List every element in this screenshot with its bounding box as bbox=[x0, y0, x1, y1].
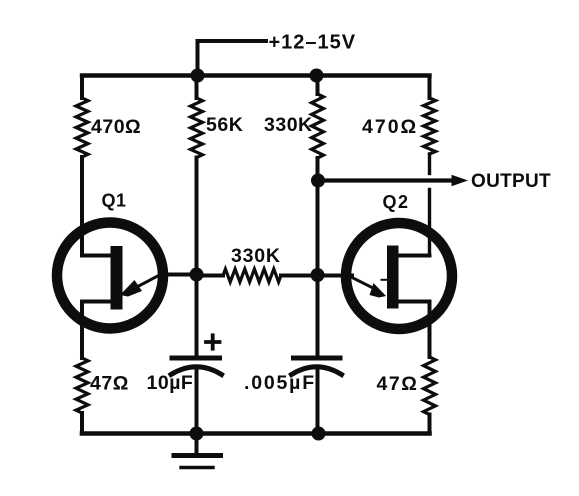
resistor 47 ohm right bbox=[424, 357, 436, 415]
resistor 330K vertical bbox=[312, 94, 324, 158]
scan dash near Q2 bar bbox=[382, 279, 387, 281]
resistor 56K bbox=[191, 98, 203, 158]
ground bar 1 bbox=[174, 453, 221, 458]
transistor Q2 base bar bbox=[387, 246, 399, 309]
wire left column upper (rail to 470 ohm) bbox=[80, 76, 84, 99]
wire 330K column to output node bbox=[316, 158, 320, 181]
capacitor 10uF plus sign bbox=[206, 340, 220, 344]
wire left column lower (Q1 emitter to 47 ohm) bbox=[80, 302, 84, 359]
capacitor 10uF top plate bbox=[172, 356, 220, 361]
wire 56K column lower (to middle node) bbox=[195, 158, 199, 276]
resistor 470 ohm left bbox=[76, 98, 88, 157]
ground stub bbox=[195, 434, 199, 456]
svg-text:OUTPUT: OUTPUT bbox=[471, 171, 551, 192]
capacitor 10uF curved plate bbox=[171, 367, 222, 375]
svg-text:47Ω: 47Ω bbox=[90, 373, 129, 395]
svg-text:330K: 330K bbox=[264, 114, 313, 136]
output arrowhead bbox=[452, 175, 469, 186]
wire right column upper (rail to 470 ohm) bbox=[428, 76, 432, 99]
wire 330K column upper bbox=[316, 76, 320, 95]
wire 10uF column upper bbox=[195, 276, 199, 358]
capacitor .005uF top plate bbox=[294, 356, 341, 361]
transistor Q2 collector lead bbox=[398, 254, 430, 258]
svg-text:Q2: Q2 bbox=[383, 192, 410, 212]
transistor Q1 circle bbox=[57, 223, 163, 329]
svg-text:330K: 330K bbox=[231, 245, 281, 267]
svg-text:10µF: 10µF bbox=[147, 372, 194, 394]
wire 330K column output node to base node bbox=[316, 181, 320, 276]
wire left column to bottom rail bbox=[80, 413, 84, 434]
wire right column lower (Q2 emitter to 47 ohm) bbox=[428, 302, 432, 358]
transistor Q1 right lead bbox=[160, 273, 197, 277]
junction dot middle left bbox=[190, 268, 204, 282]
ground bar 2 bbox=[181, 466, 213, 469]
wire 10uF column lower bbox=[195, 369, 199, 434]
transistor Q1 collector lead bbox=[82, 254, 111, 258]
wire bottom rail bbox=[82, 431, 430, 436]
svg-text:Q1: Q1 bbox=[102, 191, 127, 211]
transistor Q1 emitter arrow bbox=[134, 275, 161, 289]
svg-text:470Ω: 470Ω bbox=[91, 116, 141, 138]
wire middle row right (330K to node) bbox=[281, 274, 318, 278]
wire 56K column upper bbox=[195, 76, 199, 99]
transistor Q1 base bar bbox=[111, 246, 123, 310]
junction dot middle right bbox=[311, 268, 325, 282]
junction dot output bbox=[311, 174, 325, 188]
svg-text:.005µF: .005µF bbox=[244, 372, 316, 394]
wire power stub vertical bbox=[196, 41, 200, 76]
wire right column to output crossing bbox=[428, 154, 431, 174]
capacitor .005uF curved plate bbox=[292, 367, 342, 375]
svg-text:+12–15V: +12–15V bbox=[269, 32, 357, 54]
wire output line bbox=[318, 178, 453, 182]
svg-text:56K: 56K bbox=[206, 114, 243, 136]
wire right column to bottom rail bbox=[428, 415, 432, 434]
svg-text:47Ω: 47Ω bbox=[377, 373, 419, 395]
junction dot bottom rail right bbox=[312, 427, 326, 441]
wire power stub horizontal bbox=[198, 39, 267, 43]
transistor Q2 emitter arrow bbox=[349, 276, 374, 289]
junction dot bottom rail left bbox=[190, 427, 204, 441]
wire middle row left (node to 330K) bbox=[197, 274, 224, 278]
junction dot top rail 330K bbox=[310, 69, 324, 83]
transistor Q2 emitter lead lower bbox=[398, 300, 430, 304]
wire .005uF column upper bbox=[316, 276, 320, 358]
transistor Q2 left lead bbox=[318, 274, 353, 278]
transistor Q1 emitter lead lower bbox=[82, 300, 111, 304]
wire left column mid (470 ohm to Q1 collector) bbox=[80, 157, 84, 256]
svg-text:470Ω: 470Ω bbox=[362, 116, 418, 138]
wire .005uF column lower bbox=[316, 369, 320, 434]
resistor 330K middle bbox=[223, 269, 281, 282]
junction dot top rail 56K bbox=[191, 69, 205, 83]
transistor Q2 circle bbox=[346, 223, 452, 329]
resistor 47 ohm left bbox=[76, 358, 88, 413]
resistor 470 ohm right bbox=[424, 98, 436, 154]
wire right column below output crossing into Q2 bbox=[428, 190, 431, 256]
wire top rail bbox=[82, 73, 430, 77]
